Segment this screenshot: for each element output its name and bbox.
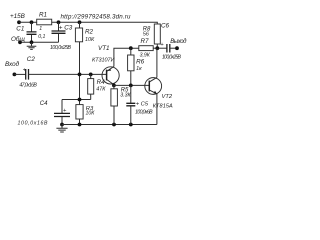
capacitor C3 — [58, 22, 60, 42]
svg-text:100,0х6В: 100,0х6В — [135, 110, 153, 116]
capacitor C1 — [31, 22, 33, 42]
node base junction — [78, 73, 82, 77]
wire VT2 emitter — [156, 94, 158, 125]
svg-text:100,0х25В: 100,0х25В — [162, 55, 182, 61]
svg-text:47,0х16В: 47,0х16В — [19, 82, 37, 88]
svg-text:R2: R2 — [85, 28, 94, 35]
wire top rail — [19, 22, 157, 24]
node C1 bottom junction — [30, 40, 34, 44]
node R6 top — [129, 46, 133, 50]
svg-text:1: 1 — [39, 26, 42, 32]
wire base column — [79, 42, 81, 105]
wire bottom bus — [62, 124, 157, 126]
node C1 junction — [30, 20, 34, 24]
svg-text:+ С5: + С5 — [136, 102, 149, 108]
svg-text:10К: 10К — [85, 37, 95, 43]
capacitor C2 — [14, 73, 25, 75]
svg-text:Выход: Выход — [170, 39, 187, 45]
svg-text:100,0х16В: 100,0х16В — [18, 121, 49, 127]
node output junction — [155, 46, 159, 50]
resistor R5 — [113, 85, 115, 124]
ground bottom — [56, 125, 67, 133]
node R2 top — [78, 20, 82, 24]
svg-text:0,1: 0,1 — [38, 34, 45, 40]
svg-text:VT1: VT1 — [98, 45, 110, 52]
svg-text:10К: 10К — [86, 111, 96, 117]
node ground bus left — [60, 123, 64, 127]
node +15V terminal — [17, 20, 21, 24]
svg-text:http://299792458.3dn.ru: http://299792458.3dn.ru — [61, 13, 132, 20]
resistor R7 — [139, 46, 153, 51]
capacitor C6 — [167, 44, 170, 53]
node R5 bus — [112, 123, 116, 127]
resistor R4 — [90, 74, 92, 99]
svg-text:R1: R1 — [39, 12, 47, 19]
resistor R1 — [37, 19, 52, 25]
node R3 bus — [78, 123, 82, 127]
svg-text:С2: С2 — [27, 56, 36, 63]
node C5 top junction — [129, 84, 133, 88]
svg-text:Вход: Вход — [5, 60, 20, 68]
svg-text:КТ815А: КТ815А — [153, 103, 173, 109]
svg-text:С6: С6 — [161, 23, 170, 30]
svg-text:100,0х25В: 100,0х25В — [50, 45, 72, 51]
node input terminal — [13, 73, 17, 77]
transistor VT2 — [145, 78, 162, 95]
svg-text:3.3К: 3.3К — [120, 93, 131, 99]
svg-text:+ С3: + С3 — [59, 24, 73, 31]
node common terminal — [18, 40, 22, 44]
svg-text:+15В: +15В — [10, 13, 25, 20]
wire VT1 collector node — [112, 84, 116, 88]
svg-text:1к: 1к — [136, 66, 142, 72]
resistor R8 — [154, 24, 160, 44]
capacitor C4 — [61, 100, 63, 125]
svg-text:С4: С4 — [40, 101, 48, 107]
wire input to base — [29, 73, 108, 75]
svg-text:С1: С1 — [16, 26, 24, 33]
resistor R6 — [130, 48, 132, 85]
transistor VT1 — [102, 67, 119, 84]
resistor R2 — [79, 22, 81, 28]
wire VT2 collector — [156, 48, 158, 77]
svg-text:КТ3107И: КТ3107И — [92, 58, 115, 64]
wire common rail — [20, 41, 59, 43]
node C5 bus — [129, 123, 133, 127]
svg-text:R6: R6 — [136, 58, 145, 65]
node R4 top junction — [89, 73, 93, 77]
svg-text:47К: 47К — [96, 87, 106, 93]
ground left — [27, 42, 37, 49]
wire VT1 emitter up — [114, 48, 139, 66]
svg-text:VT2: VT2 — [162, 94, 173, 100]
capacitor C5 — [130, 85, 132, 124]
wire C4/R3/R4 node — [62, 99, 91, 101]
svg-text:R7: R7 — [141, 38, 150, 45]
node C3 junction — [57, 20, 61, 24]
svg-text:Общ: Общ — [11, 35, 25, 43]
node divider junction — [78, 98, 82, 102]
svg-text:56: 56 — [143, 32, 149, 38]
node output terminal — [175, 46, 179, 50]
resistor R3 — [76, 105, 83, 119]
